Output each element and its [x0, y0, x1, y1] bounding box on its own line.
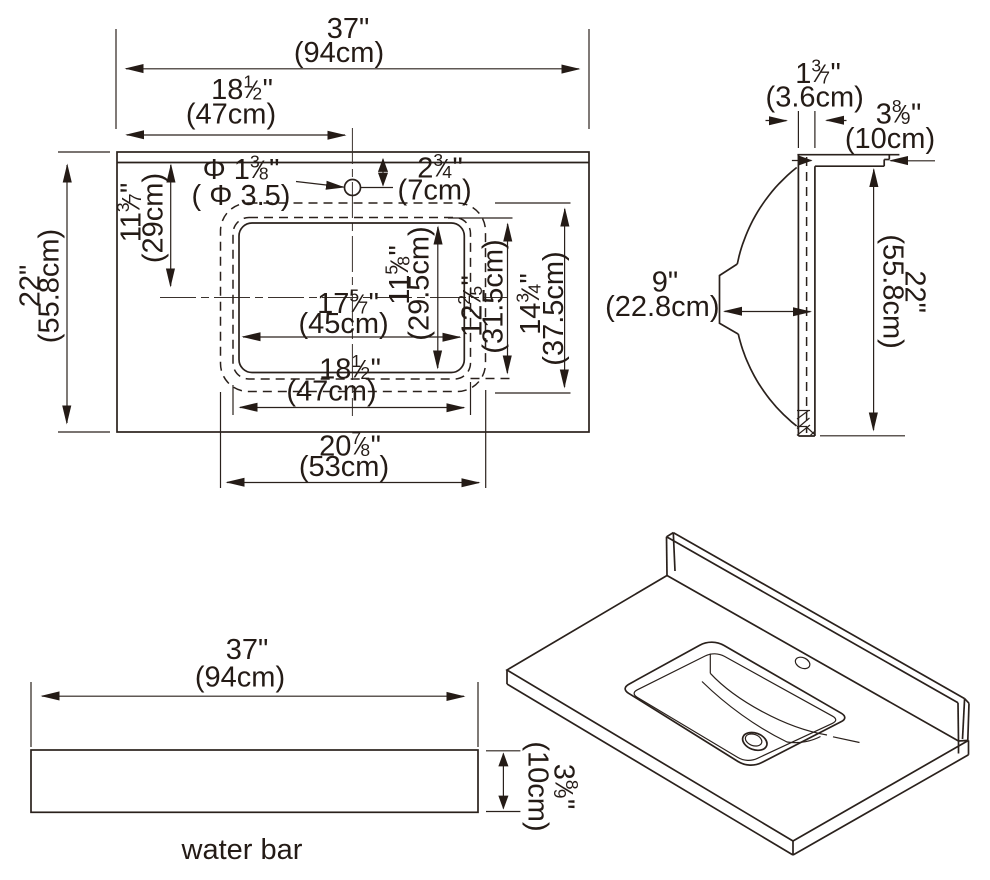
dim 14 3/4 (37.5cm) [495, 202, 571, 204]
svg-text:(47cm): (47cm) [286, 376, 376, 408]
dim 11 5/8 (29.5cm) [437, 227, 439, 368]
svg-text:(29.5cm): (29.5cm) [404, 226, 436, 340]
dim 22in left [58, 151, 110, 153]
svg-text:(37.5cm): (37.5cm) [538, 251, 570, 365]
svg-text:(53cm): (53cm) [299, 451, 389, 483]
svg-text:(29cm): (29cm) [138, 173, 170, 263]
bowl floor curve [702, 682, 821, 743]
faucet hole 3d [794, 655, 812, 671]
bowl arc upper [737, 168, 796, 265]
water bar outline [31, 750, 478, 812]
sink rim outer [625, 642, 845, 765]
svg-text:(94cm): (94cm) [195, 662, 285, 694]
svg-text:(55.8cm): (55.8cm) [876, 234, 908, 348]
bowl back wall curve [710, 673, 827, 735]
svg-text:(55.8cm): (55.8cm) [34, 229, 66, 343]
deck top [507, 576, 969, 842]
dim 3 8/9 (10cm) [486, 750, 520, 752]
dim 22in right [873, 170, 875, 431]
faucet hole [345, 180, 361, 196]
svg-text:(47cm): (47cm) [186, 99, 276, 131]
dim 2 3/4 [382, 159, 384, 186]
svg-text:water bar: water bar [181, 834, 303, 866]
svg-text:(10cm): (10cm) [845, 123, 935, 155]
dim 1 3/7 [797, 111, 799, 148]
svg-text:(22.8cm): (22.8cm) [605, 291, 719, 323]
sink rim solid [239, 223, 464, 373]
inner dashed cutout [233, 218, 471, 380]
svg-text:(10cm): (10cm) [522, 741, 554, 831]
backsplash bottom in side view [815, 165, 884, 167]
backsplash [673, 533, 964, 699]
dim 18.5in top [127, 134, 345, 136]
dim 3 8/9 (10cm) side [792, 160, 812, 162]
dim 11 3/7 [170, 165, 172, 286]
overflow notch [720, 264, 739, 334]
dim 12 2/5 (31.5cm) [448, 217, 513, 219]
backsplash front line [117, 162, 589, 164]
svg-text:(3.6cm): (3.6cm) [766, 81, 864, 113]
countertop outline [117, 152, 589, 432]
dim 37in [30, 682, 32, 747]
horizontal centerline [160, 297, 508, 299]
dim 37in top [115, 29, 117, 129]
vertical centerline [351, 128, 353, 416]
deck thickness [506, 670, 508, 684]
slab outline [797, 154, 899, 156]
svg-text:( Φ 3.5): ( Φ 3.5) [192, 180, 291, 212]
svg-text:(94cm): (94cm) [294, 37, 384, 69]
bowl arc lower [738, 334, 796, 426]
baseline [820, 435, 905, 437]
outer dashed cutout [221, 203, 486, 392]
slab dashed centerline [806, 157, 808, 433]
hatch [797, 410, 810, 412]
bowl corner edge [709, 654, 711, 674]
sink rim inner [634, 654, 836, 761]
svg-text:(7cm): (7cm) [398, 175, 472, 207]
drain [740, 729, 769, 753]
svg-text:(31.5cm): (31.5cm) [478, 239, 510, 353]
svg-text:(45cm): (45cm) [298, 308, 388, 340]
